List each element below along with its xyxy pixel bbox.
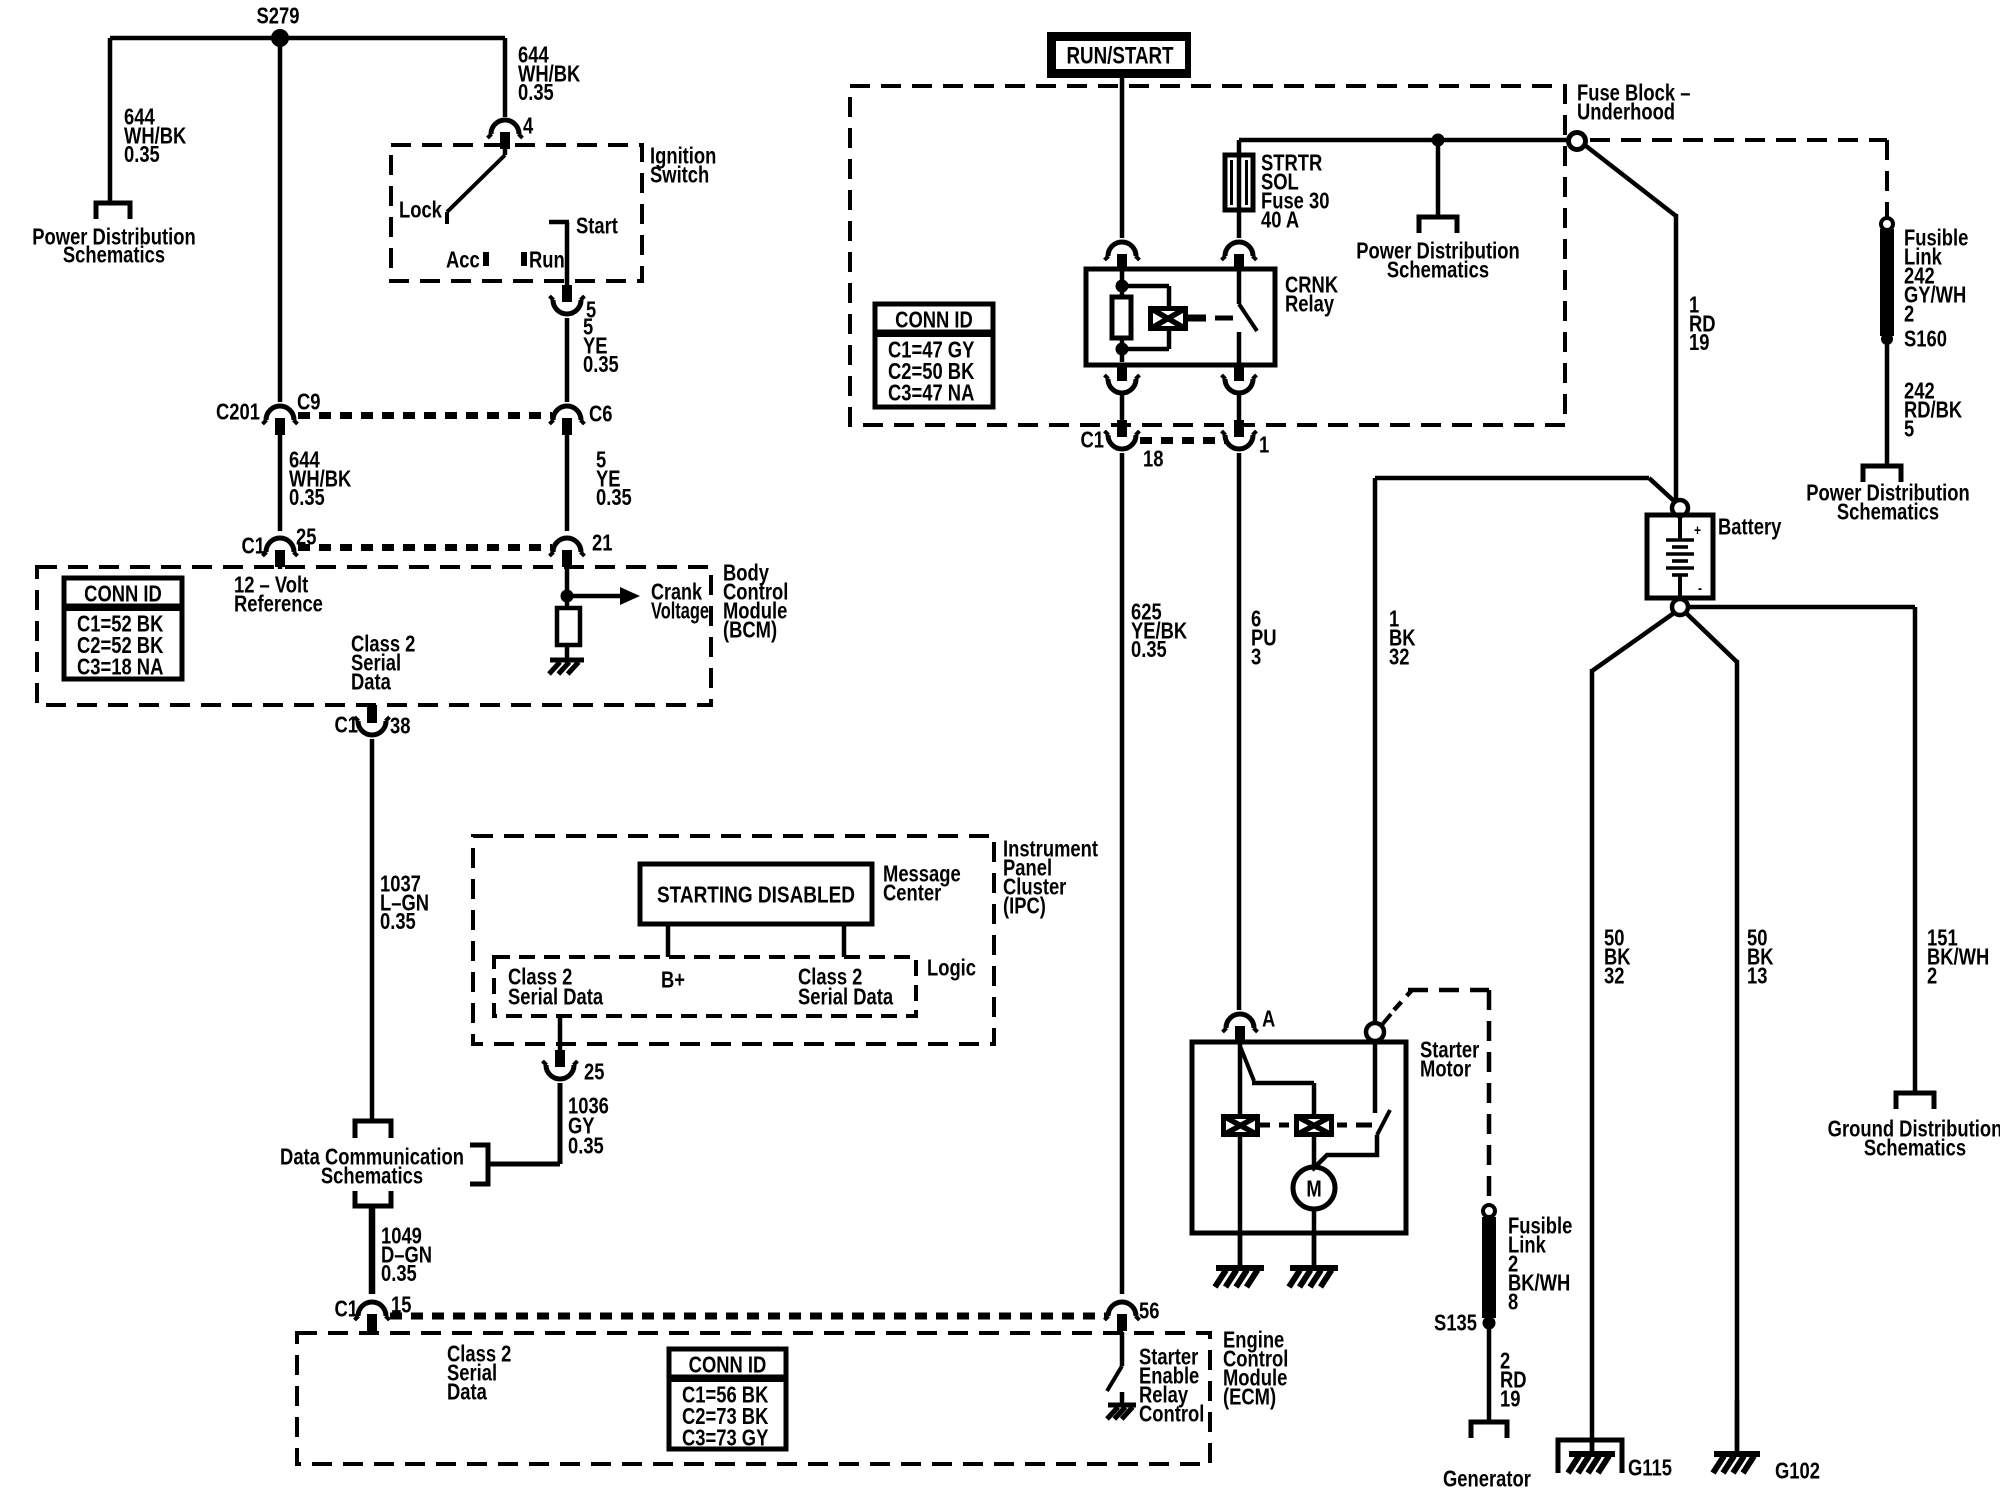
svg-text:Underhood: Underhood	[1577, 100, 1675, 125]
svg-text:+: +	[1694, 522, 1701, 539]
svg-text:Voltage: Voltage	[651, 599, 709, 624]
svg-text:Run: Run	[529, 248, 565, 273]
svg-text:Motor: Motor	[1420, 1057, 1471, 1082]
svg-text:5: 5	[1904, 417, 1914, 442]
svg-text:Switch: Switch	[650, 162, 709, 187]
svg-text:RUN/START: RUN/START	[1066, 41, 1174, 69]
svg-text:Center: Center	[883, 881, 941, 906]
svg-text:Logic: Logic	[927, 956, 976, 981]
svg-text:Serial Data: Serial Data	[508, 985, 603, 1010]
svg-text:38: 38	[390, 714, 410, 739]
svg-text:S160: S160	[1904, 327, 1947, 352]
svg-text:Data: Data	[351, 670, 391, 695]
svg-text:Schematics: Schematics	[1864, 1136, 1966, 1161]
svg-text:Battery: Battery	[1718, 515, 1782, 540]
svg-text:A: A	[1262, 1007, 1275, 1032]
svg-text:STARTING DISABLED: STARTING DISABLED	[657, 883, 855, 908]
svg-text:19: 19	[1689, 330, 1709, 355]
svg-text:0.35: 0.35	[583, 352, 619, 377]
svg-text:Serial Data: Serial Data	[798, 985, 893, 1010]
svg-text:0.35: 0.35	[124, 142, 160, 167]
svg-text:32: 32	[1389, 645, 1409, 670]
svg-text:C9: C9	[297, 390, 321, 415]
svg-text:0.35: 0.35	[380, 909, 416, 934]
svg-text:25: 25	[584, 1060, 604, 1085]
svg-text:25: 25	[296, 525, 316, 550]
svg-text:18: 18	[1143, 447, 1163, 472]
svg-text:4: 4	[523, 114, 534, 139]
svg-text:19: 19	[1500, 1387, 1520, 1412]
svg-text:G102: G102	[1775, 1459, 1820, 1484]
svg-text:Start: Start	[576, 214, 618, 239]
svg-text:56: 56	[1139, 1299, 1159, 1324]
svg-text:Schematics: Schematics	[1837, 500, 1939, 525]
svg-text:32: 32	[1604, 964, 1624, 989]
svg-text:C1: C1	[334, 713, 358, 738]
svg-text:13: 13	[1747, 964, 1767, 989]
svg-text:0.35: 0.35	[1131, 637, 1167, 662]
svg-text:Schematics: Schematics	[63, 243, 165, 268]
svg-text:C6: C6	[589, 402, 613, 427]
svg-text:Schematics: Schematics	[1387, 258, 1489, 283]
svg-text:0.35: 0.35	[289, 485, 325, 510]
svg-text:CONN ID: CONN ID	[84, 582, 162, 607]
svg-text:2: 2	[1904, 302, 1914, 327]
svg-text:Acc: Acc	[446, 248, 480, 273]
svg-text:CONN ID: CONN ID	[895, 308, 973, 333]
svg-text:(ECM): (ECM)	[1223, 1385, 1276, 1410]
svg-text:0.35: 0.35	[596, 485, 632, 510]
svg-text:(BCM): (BCM)	[723, 618, 777, 643]
svg-text:S279: S279	[257, 4, 300, 29]
svg-text:-: -	[1698, 580, 1702, 597]
svg-text:Reference: Reference	[234, 592, 323, 617]
svg-text:CONN ID: CONN ID	[689, 1353, 767, 1378]
svg-text:Generator: Generator	[1443, 1467, 1531, 1492]
svg-text:C1: C1	[334, 1297, 358, 1322]
svg-text:3: 3	[1251, 645, 1261, 670]
svg-text:C1: C1	[241, 534, 265, 559]
svg-text:G115: G115	[1628, 1456, 1672, 1481]
svg-text:C3=18 NA: C3=18 NA	[77, 654, 163, 679]
svg-text:1: 1	[1259, 433, 1269, 458]
svg-text:M: M	[1306, 1177, 1321, 1202]
svg-text:B+: B+	[661, 968, 685, 993]
svg-text:0.35: 0.35	[381, 1261, 417, 1286]
svg-text:0.35: 0.35	[518, 80, 554, 105]
svg-text:Relay: Relay	[1285, 292, 1334, 317]
svg-text:C3=73 GY: C3=73 GY	[682, 1425, 768, 1450]
svg-text:Control: Control	[1139, 1402, 1204, 1427]
svg-text:S135: S135	[1434, 1311, 1477, 1336]
svg-text:C1: C1	[1080, 428, 1104, 453]
svg-text:C3=47 NA: C3=47 NA	[888, 380, 974, 405]
svg-text:21: 21	[592, 531, 612, 556]
svg-text:8: 8	[1508, 1290, 1518, 1315]
svg-text:(IPC): (IPC)	[1003, 894, 1046, 919]
svg-text:C201: C201	[216, 400, 260, 425]
svg-text:Lock: Lock	[399, 198, 442, 223]
svg-text:15: 15	[391, 1293, 411, 1318]
svg-text:40 A: 40 A	[1261, 208, 1299, 233]
svg-text:2: 2	[1927, 964, 1937, 989]
svg-text:Schematics: Schematics	[321, 1164, 423, 1189]
svg-text:Data: Data	[447, 1380, 487, 1405]
svg-text:0.35: 0.35	[568, 1134, 604, 1159]
